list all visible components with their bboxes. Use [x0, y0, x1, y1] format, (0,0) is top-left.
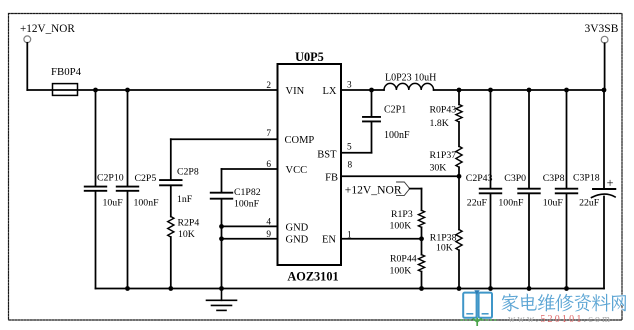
svg-text:100nF: 100nF [134, 198, 160, 209]
svg-text:8: 8 [348, 161, 353, 171]
svg-text:R1P37: R1P37 [430, 150, 457, 161]
svg-text:EN: EN [322, 235, 336, 246]
capacitor C2P43 [480, 189, 502, 194]
svg-text:C2P8: C2P8 [177, 167, 199, 178]
svg-text:VCC: VCC [286, 165, 308, 176]
capacitor C3P8 [556, 189, 578, 194]
svg-text:100nF: 100nF [498, 197, 524, 208]
junction top rail C3P0 [527, 88, 532, 93]
junction FB divider [457, 174, 462, 179]
wire 3V3SB vertical [604, 43, 606, 90]
svg-text:100K: 100K [390, 220, 412, 231]
capacitor C2P5 [117, 187, 139, 191]
wire VIN rail y=90 [27, 89, 277, 91]
svg-text:L0P23 10uH: L0P23 10uH [385, 72, 436, 83]
svg-text:C2P10: C2P10 [97, 173, 124, 184]
resistor R1P38 [456, 230, 462, 251]
junction top rail C3P18 [602, 88, 607, 93]
wire R2P4 lower [170, 237, 172, 289]
wire C1P82 upper [221, 169, 223, 192]
junction bottom rail C3P0 [527, 286, 532, 291]
watermark logo sprout [473, 318, 482, 327]
wire C2P1 upper [371, 90, 373, 116]
wire C3P8 upper [566, 90, 568, 188]
ground [207, 289, 237, 311]
junction C2P1 tap [369, 88, 374, 93]
wire R1P38 lower [458, 250, 460, 288]
svg-text:+: + [607, 176, 614, 190]
capacitor C2P1 [363, 117, 380, 122]
junction pin9 on gnd column [219, 236, 224, 241]
wire R1P37 lower [458, 167, 460, 229]
wire GND pin4 [222, 225, 278, 227]
svg-text:+12V_NOR: +12V_NOR [345, 184, 402, 197]
svg-text:100nF: 100nF [384, 130, 410, 141]
wire VCC pin6 [222, 168, 278, 170]
svg-text:C3P0: C3P0 [504, 173, 526, 184]
wire R1P3 to R0P44 [421, 227, 423, 254]
junction pin4 on gnd column [219, 224, 224, 229]
resistor R0P43 [456, 104, 462, 122]
wire C2P43 lower [490, 194, 492, 288]
node +12V_NOR net flag outline [397, 182, 410, 195]
op-amp U1: IC U0P5 AOZ3101 body [278, 64, 342, 265]
svg-text:R0P43: R0P43 [430, 104, 457, 115]
junction C2P10 tap [93, 88, 98, 93]
wire C2P43 upper [490, 90, 492, 188]
svg-text:C3P8: C3P8 [543, 173, 565, 184]
svg-text:6: 6 [266, 160, 271, 170]
junction C2P5 tap [125, 88, 130, 93]
svg-text:R0P44: R0P44 [390, 254, 417, 265]
svg-text:C2P5: C2P5 [135, 173, 157, 184]
svg-text:GND: GND [286, 235, 309, 246]
svg-text:22uF: 22uF [467, 197, 488, 208]
junction bottom rail gnd column [219, 286, 224, 291]
svg-text:LX: LX [323, 86, 337, 97]
wire 3V3SB rail y=90 [434, 89, 604, 91]
wire C3P18 lower [603, 197, 605, 289]
svg-text:C2P1: C2P1 [384, 105, 406, 116]
svg-text:AOZ3101: AOZ3101 [287, 270, 338, 284]
resistor R2P4 [168, 217, 174, 238]
svg-text:FB: FB [325, 172, 338, 183]
wire C2P5 lower [127, 192, 129, 289]
capacitor C3P0 [518, 189, 540, 194]
svg-text:10K: 10K [436, 243, 453, 254]
wire C2P10 upper [95, 90, 97, 186]
svg-text:R2P4: R2P4 [178, 217, 200, 228]
capacitor C2P8 [160, 180, 182, 185]
junction top rail C3P8 [564, 88, 569, 93]
wire C3P18 upper [603, 90, 605, 188]
svg-text:3V3SB: 3V3SB [585, 23, 619, 35]
wire R0P44 lower [421, 272, 423, 289]
svg-text:+12V_NOR: +12V_NOR [20, 23, 75, 35]
wire input vertical [26, 43, 28, 90]
svg-text:4: 4 [266, 217, 271, 227]
wire BST pin5 [341, 152, 372, 154]
resistor R1P3 [418, 210, 424, 227]
resistor R0P44 [418, 255, 424, 272]
svg-text:C2P43: C2P43 [466, 173, 493, 184]
junction bottom rail C3P8 [564, 286, 569, 291]
svg-text:10uF: 10uF [543, 197, 564, 208]
node 3V3SB output terminal [601, 36, 608, 43]
svg-text:100nF: 100nF [234, 198, 260, 209]
svg-text:2: 2 [266, 81, 271, 91]
wire C2P5 upper [127, 90, 129, 186]
svg-text:www.520101.com: www.520101.com [508, 314, 612, 325]
svg-text:GND: GND [286, 222, 309, 233]
inductor L0P23 [384, 83, 434, 90]
svg-text:5: 5 [347, 143, 352, 153]
wire C3P8 lower [566, 194, 568, 288]
watermark logo open book [463, 293, 492, 318]
wire COMP pin7 [171, 138, 278, 140]
wire C2P8 to R2P4 [170, 186, 172, 216]
junction top rail C2P43 [488, 88, 493, 93]
wire R0P43 to R1P37 [458, 122, 460, 146]
wire C2P8 upper [170, 139, 172, 179]
wire EN pin1 [341, 238, 422, 240]
wire flag to R1P3 [410, 188, 422, 190]
watermark logo bookmark [474, 290, 479, 295]
svg-text:BST: BST [317, 149, 337, 160]
svg-text:1nF: 1nF [177, 194, 193, 205]
svg-text:C3P18: C3P18 [573, 172, 600, 183]
svg-text:U0P5: U0P5 [295, 50, 324, 64]
junction bottom rail R2P4 [168, 286, 173, 291]
svg-text:FB0P4: FB0P4 [51, 66, 82, 78]
wire C2P1 lower [371, 122, 373, 152]
svg-text:R1P3: R1P3 [391, 209, 413, 220]
wire ground rail y=288.5 [96, 288, 605, 290]
junction bottom rail C2P43 [488, 286, 493, 291]
wire R1P3 upper [421, 189, 423, 211]
svg-text:C1P82: C1P82 [234, 187, 261, 198]
svg-text:100K: 100K [390, 265, 412, 276]
svg-text:VIN: VIN [286, 86, 305, 97]
wire C3P0 upper [528, 90, 530, 188]
svg-text:30K: 30K [430, 163, 447, 174]
junction bottom rail R0P44 [419, 286, 424, 291]
svg-text:10uF: 10uF [103, 198, 124, 209]
capacitor C2P10 [85, 187, 107, 191]
junction EN divider [419, 236, 424, 241]
junction bottom rail C2P5 [125, 286, 130, 291]
wire FB pin8 [341, 175, 459, 177]
wire LX pin3 [341, 89, 384, 91]
wire R0P43 upper [458, 90, 460, 104]
svg-text:7: 7 [266, 129, 271, 139]
wire GND pin9 [222, 238, 278, 240]
junction top rail R0P43 [457, 88, 462, 93]
svg-text:9: 9 [266, 230, 271, 240]
svg-text:22uF: 22uF [579, 197, 600, 208]
svg-text:COMP: COMP [285, 135, 315, 146]
resistor R1P37 [456, 146, 462, 167]
node +12V_NOR input terminal [24, 36, 31, 43]
svg-text:3: 3 [347, 80, 352, 90]
capacitor C1P82 [211, 193, 233, 199]
watermark text jiadian weixiu ziliao wang [502, 293, 626, 311]
wire C3P0 lower [528, 194, 530, 288]
svg-text:10K: 10K [178, 229, 195, 240]
junction bottom rail R1P38 [457, 286, 462, 291]
wire C1P82 lower [221, 200, 223, 289]
wire C2P10 lower [95, 192, 97, 289]
svg-text:1.8K: 1.8K [430, 118, 449, 129]
svg-text:1: 1 [347, 231, 352, 241]
ferrite bead FB0P4 [53, 84, 78, 96]
watermark url www.520101.com [508, 314, 612, 325]
capacitor C3P18 (polarized) [592, 189, 616, 198]
